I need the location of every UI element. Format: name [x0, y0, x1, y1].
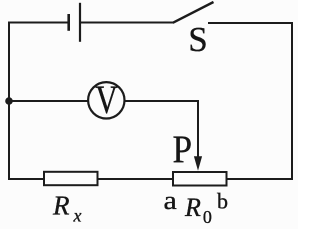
voltmeter circle [88, 82, 124, 118]
wire: battery to switch [80, 22, 174, 24]
wire: switch to top-right corner [208, 22, 293, 24]
wire: R0 to bottom-right corner [227, 178, 293, 180]
svg-text:S: S [188, 20, 207, 59]
wire: right vertical side [291, 22, 293, 180]
svg-text:b: b [217, 189, 228, 214]
svg-text:P: P [173, 128, 193, 171]
battery positive plate (long) [79, 3, 81, 42]
wire: Rx to R0 [99, 178, 173, 180]
svg-text:V: V [95, 77, 118, 122]
wire: bottom-left corner to Rx [8, 178, 44, 180]
rheostat R0 body [173, 172, 227, 186]
wire: top-left horizontal to battery [8, 22, 68, 24]
junction node dot [5, 97, 13, 105]
switch S lever (open) [173, 2, 214, 23]
wire: junction to voltmeter [9, 100, 89, 102]
wiper arrowhead [194, 156, 202, 171]
wire: voltmeter to down-corner [125, 100, 200, 102]
wire: vertical down to wiper [197, 100, 199, 158]
svg-text:a: a [164, 187, 178, 216]
battery negative plate (short) [67, 14, 70, 31]
resistor Rx body [44, 172, 98, 185]
wire: left vertical side [8, 22, 10, 181]
